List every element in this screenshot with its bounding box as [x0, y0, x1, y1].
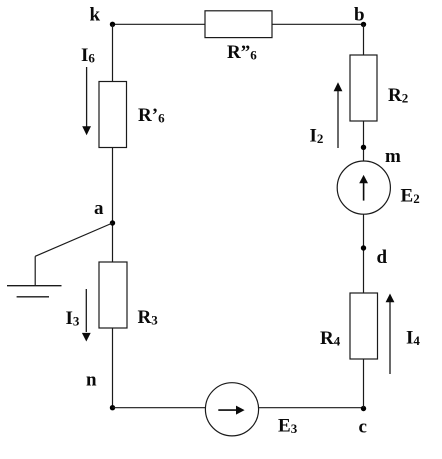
node b [361, 22, 366, 27]
svg-text:a: a [94, 198, 104, 219]
wire E3 to c (bottom right horizontal) [259, 407, 364, 409]
node k [110, 22, 115, 27]
resistor R4 [350, 293, 378, 359]
svg-text:d: d [377, 247, 388, 268]
resistor R"6 [205, 11, 272, 38]
ground [7, 286, 62, 297]
source E2 [337, 161, 390, 214]
node n [110, 405, 115, 410]
wire k to R'6 (left rail upper) [112, 24, 114, 81]
wire R4 to c (right rail lower) [363, 359, 365, 408]
node d [361, 245, 366, 250]
svg-text:k: k [90, 4, 101, 25]
svg-text:b: b [354, 4, 365, 25]
wire ground stem [34, 256, 36, 285]
wire n to E3 (bottom left horizontal) [113, 407, 206, 409]
wire E2 to R4 (right rail) [363, 214, 365, 293]
current arrow I3 [82, 289, 91, 342]
wire R'6 to R3 (left rail middle) [112, 148, 114, 263]
wire a to ground (slanted) [35, 223, 112, 256]
source E3 [205, 383, 258, 436]
wire R2 to E2 (right rail) [363, 121, 365, 161]
wire b to R2 (right rail upper) [363, 24, 365, 55]
wire R3 to n (left rail lower) [112, 328, 114, 408]
current arrow I4 [386, 294, 395, 375]
resistor R3 [99, 262, 127, 328]
current arrow I2 [334, 82, 343, 148]
node m [361, 145, 366, 150]
wire k to R"6 (top left horizontal) [113, 23, 206, 25]
svg-text:m: m [385, 146, 401, 167]
resistor R2 [350, 55, 377, 121]
node c [361, 406, 366, 411]
resistor R'6 [99, 82, 127, 148]
svg-text:n: n [86, 370, 97, 391]
svg-text:c: c [359, 416, 367, 437]
wire R"6 to b (top right horizontal) [272, 23, 364, 25]
node a [110, 220, 115, 225]
current arrow I6 [82, 67, 91, 135]
